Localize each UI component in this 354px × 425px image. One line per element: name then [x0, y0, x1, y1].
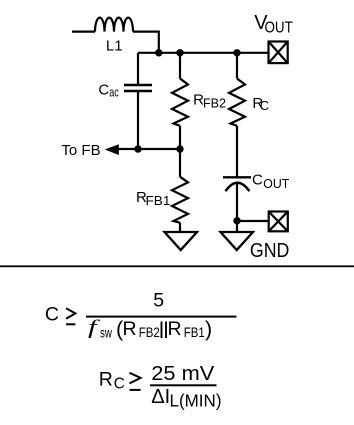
- resistor RC: [229, 53, 245, 178]
- terminal GND: [269, 212, 288, 232]
- eq1 greater-equal: [66, 308, 75, 324]
- svg-text:5: 5: [153, 290, 164, 312]
- inductor L1: [72, 18, 159, 53]
- eq1 fraction bar: [86, 316, 237, 318]
- capacitor Cac: [124, 53, 152, 149]
- svg-text:To FB: To FB: [61, 142, 100, 159]
- junction dot D (Cac bottom on FB wire): [134, 145, 141, 152]
- svg-text:): ): [205, 317, 212, 341]
- label VOUT: [254, 12, 293, 36]
- svg-text:L1: L1: [106, 37, 123, 54]
- svg-text:FB1: FB1: [146, 193, 171, 208]
- svg-text:C: C: [252, 172, 263, 189]
- label RFB1: [136, 189, 170, 208]
- junction dot B (RFB2 top): [176, 49, 183, 56]
- junction dot C (RC top): [233, 49, 240, 56]
- junction dot F (COUT bottom): [233, 217, 240, 224]
- svg-text:ΔI: ΔI: [151, 386, 170, 408]
- ground right: [221, 232, 254, 250]
- svg-text:R: R: [168, 318, 182, 340]
- svg-text:FB2: FB2: [203, 96, 226, 111]
- svg-text:OUT: OUT: [265, 19, 293, 36]
- svg-text:sw: sw: [100, 325, 113, 341]
- eq1 parallel bars: [162, 322, 167, 339]
- svg-text:C: C: [260, 98, 269, 113]
- equation 2: RC >= 25 mV / delta IL(MIN): [99, 362, 222, 411]
- resistor RFB1: [172, 149, 188, 232]
- wire To FB: [117, 148, 180, 150]
- svg-text:OUT: OUT: [263, 176, 289, 191]
- arrow To FB: [105, 144, 119, 155]
- eq2 fraction bar: [150, 384, 216, 386]
- ground left: [165, 232, 198, 250]
- wire COUT to ground: [236, 221, 238, 232]
- svg-text:L(MIN): L(MIN): [170, 391, 222, 411]
- svg-text:C: C: [98, 82, 109, 99]
- capacitor COUT: [223, 177, 251, 220]
- label COUT: [252, 172, 289, 191]
- svg-text:25 mV: 25 mV: [151, 362, 214, 385]
- svg-text:C: C: [45, 304, 59, 326]
- terminal VOUT: [269, 42, 288, 64]
- divider line: [0, 265, 354, 267]
- junction dot E (RFB2/RFB1 on FB wire): [176, 145, 183, 152]
- svg-text:FB1: FB1: [184, 324, 205, 340]
- svg-text:C: C: [114, 376, 125, 393]
- svg-text:GND: GND: [250, 240, 290, 262]
- wire main output node: [138, 52, 269, 54]
- junction dot A (inductor to node): [155, 49, 162, 56]
- svg-text:R: R: [99, 368, 113, 390]
- label RFB2: [193, 92, 226, 111]
- label RC: [252, 95, 269, 113]
- svg-text:ac: ac: [109, 85, 119, 100]
- label Cac: [98, 82, 119, 100]
- resistor RFB2: [172, 53, 188, 149]
- svg-text:R: R: [123, 318, 137, 340]
- wire to GND terminal: [237, 220, 269, 222]
- svg-text:FB2: FB2: [139, 324, 160, 340]
- eq2 greater-equal: [130, 373, 141, 390]
- equation 1: C >= 5 / (fsw (RFB2||RFB1)): [45, 290, 237, 341]
